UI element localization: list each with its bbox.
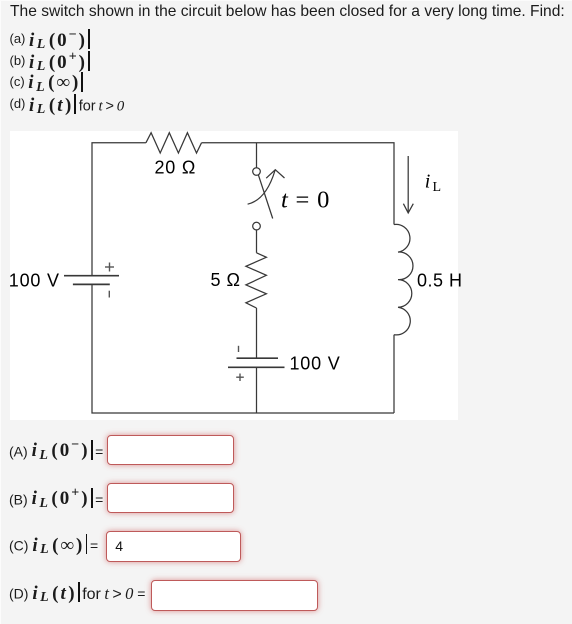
svg-text:100 V: 100 V <box>9 271 60 291</box>
svg-text:i: i <box>425 171 431 193</box>
svg-text:100 V: 100 V <box>290 354 341 374</box>
svg-text:20 Ω: 20 Ω <box>155 158 197 178</box>
svg-text:t = 0: t = 0 <box>281 187 330 214</box>
svg-text:5 Ω: 5 Ω <box>211 270 241 290</box>
svg-text:L: L <box>433 180 442 195</box>
svg-text:0.5 H: 0.5 H <box>417 271 463 291</box>
